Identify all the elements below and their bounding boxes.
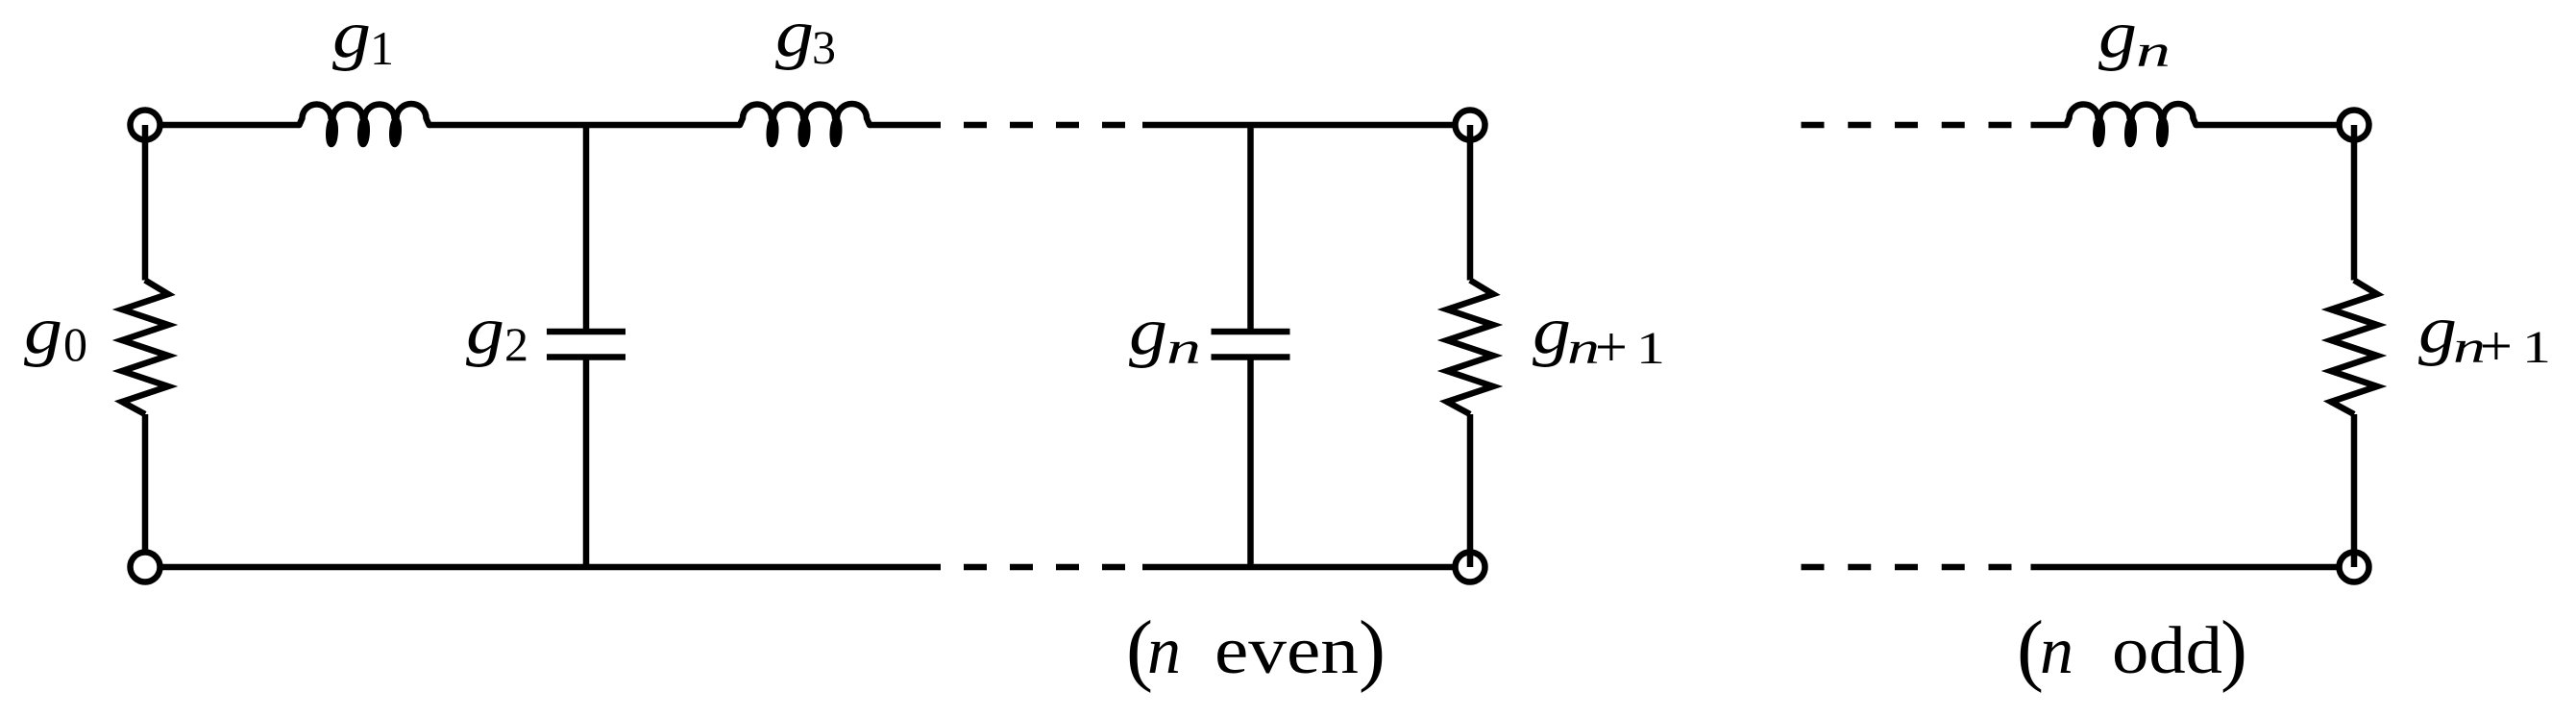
terminal: bottom-right node of (n even) network: [1456, 553, 1485, 582]
svg-text:1: 1: [1636, 323, 1665, 374]
wire: dashed top lead of (n odd) network: [1802, 122, 2012, 129]
resistor g0: [122, 281, 168, 415]
wire: left branch from top-left terminal down to resistor g0: [142, 125, 149, 281]
svg-text:n: n: [1147, 614, 1181, 688]
svg-text:1: 1: [2522, 322, 2551, 373]
wire: from resistor gn+1 down to bottom-right terminal: [1467, 414, 1474, 567]
inductor gn (n odd network): [2067, 104, 2196, 144]
inductor g1: [300, 104, 429, 144]
svg-text:g: g: [1533, 294, 1571, 368]
svg-text:+: +: [1595, 315, 1628, 379]
svg-text:g: g: [1129, 295, 1167, 369]
svg-text:odd: odd: [2112, 614, 2222, 688]
label g2: [466, 294, 528, 371]
svg-text:g: g: [775, 0, 814, 71]
label g3: [775, 0, 836, 74]
svg-text:): ): [1359, 605, 1386, 694]
wire: from resistor g0 down to bottom-left terminal: [142, 414, 149, 553]
svg-text:g: g: [332, 0, 371, 72]
wire: bottom rail of (n odd) network: [2031, 564, 2340, 571]
wire: top rail from dashed break to top-right terminal: [1142, 122, 1456, 129]
wire: from capacitor g2 down to bottom rail: [583, 358, 590, 568]
wire: top lead from dashed break to inductor gn: [2031, 122, 2067, 129]
svg-text:even: even: [1214, 614, 1359, 688]
resistor gn+1 (n even network): [1447, 281, 1493, 415]
terminal: bottom-right node of (n odd) network: [2340, 553, 2369, 582]
label g1: [332, 0, 394, 75]
wire: dashed continuation of top rail: [918, 122, 1142, 129]
wire: stub from top-right terminal into circle (n odd): [2351, 125, 2358, 281]
wire: dashed continuation of bottom rail: [918, 564, 1142, 571]
inductor g3: [740, 104, 870, 144]
terminal: top-right node of (n even) network: [1456, 111, 1485, 140]
svg-text:n: n: [2136, 26, 2171, 77]
caption (n even): [1126, 605, 1386, 694]
wire: shunt branch from top rail down to capacitor gn: [1247, 125, 1254, 332]
caption (n odd): [2017, 605, 2247, 694]
wire: right branch from top-right terminal down to resistor gn+1: [1467, 125, 1474, 281]
capacitor gn (n even network): [1212, 332, 1290, 358]
svg-text:+: +: [2480, 314, 2513, 378]
svg-text:g: g: [24, 294, 62, 368]
label gn (n odd network): [2098, 0, 2171, 77]
svg-text:n: n: [2040, 614, 2073, 688]
svg-text:3: 3: [812, 20, 836, 74]
svg-text:1: 1: [370, 21, 394, 75]
wire: top rail from top-left terminal to inductor g1: [160, 122, 300, 129]
label g0: [24, 294, 87, 371]
svg-text:n: n: [1166, 323, 1201, 374]
terminal: top-left port node: [131, 111, 160, 140]
wire: shunt branch from top rail down to capacitor g2: [583, 125, 590, 332]
wire: dashed bottom lead of (n odd) network: [1802, 564, 2012, 571]
resistor gn+1 (n odd network): [2331, 281, 2377, 415]
wire: top rail from g1 to inductor g3, junction at node g2: [429, 122, 741, 129]
svg-text:g: g: [466, 294, 504, 368]
label gn (n even network): [1129, 295, 1201, 374]
wire: from capacitor gn down to bottom rail: [1247, 358, 1254, 568]
svg-text:0: 0: [63, 317, 87, 371]
wire: from resistor gn+1 down to bottom-right terminal (n odd): [2351, 414, 2358, 567]
label gn+1 (n even network): [1533, 294, 1665, 379]
wire: from inductor gn to top-right terminal of (n odd) network: [2196, 122, 2340, 129]
terminal: bottom-left port node: [131, 553, 160, 582]
svg-text:): ): [2220, 605, 2247, 694]
capacitor g2: [547, 332, 626, 358]
label gn+1 (n odd network): [2418, 293, 2551, 378]
wire: bottom rail from bottom-left terminal to dashed break: [160, 564, 919, 571]
wire: top rail from g3 to start of dashed break: [870, 122, 918, 129]
svg-text:g: g: [2418, 293, 2457, 367]
terminal: top-right node of (n odd) network: [2340, 111, 2369, 140]
svg-text:2: 2: [504, 317, 528, 371]
svg-text:g: g: [2098, 0, 2137, 72]
wire: bottom rail from dashed break to bottom-right terminal: [1142, 564, 1456, 571]
